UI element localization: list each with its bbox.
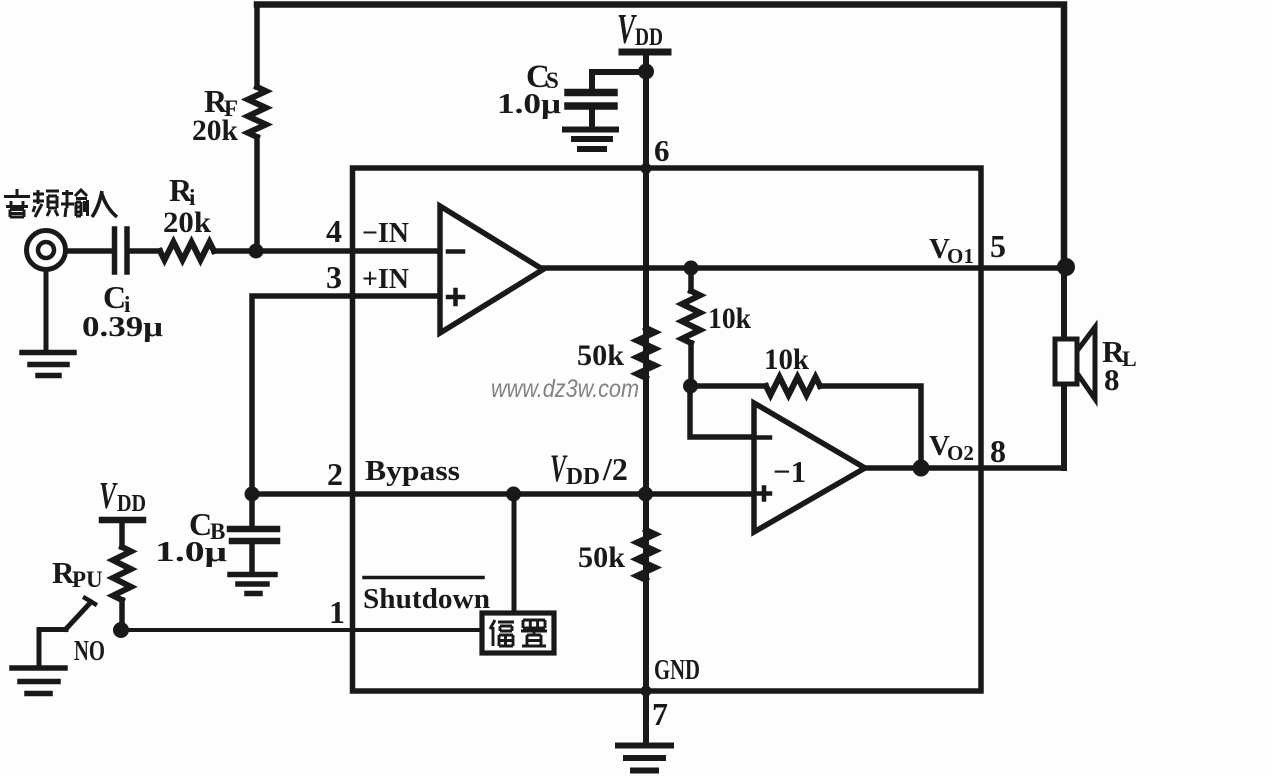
svg-text:50k: 50k [577, 339, 624, 372]
svg-text:6: 6 [654, 133, 670, 168]
svg-text:7: 7 [652, 696, 668, 732]
svg-text:4: 4 [326, 213, 342, 249]
svg-text:PU: PU [72, 567, 103, 592]
svg-text:50k: 50k [578, 541, 625, 574]
svg-text:O2: O2 [947, 441, 974, 465]
svg-text:0.39μ: 0.39μ [82, 312, 163, 343]
svg-text:8: 8 [1104, 362, 1120, 397]
svg-text:10k: 10k [708, 302, 751, 335]
svg-text:20k: 20k [163, 206, 211, 239]
svg-text:5: 5 [990, 228, 1006, 264]
svg-text:1.0μ: 1.0μ [497, 89, 561, 120]
svg-text:DD: DD [117, 491, 146, 517]
svg-text:/2: /2 [602, 451, 628, 487]
svg-text:DD: DD [566, 464, 600, 490]
svg-text:C: C [103, 279, 126, 315]
svg-text:V: V [99, 475, 118, 517]
svg-text:O1: O1 [947, 244, 974, 268]
svg-text:GND: GND [654, 654, 700, 686]
svg-text:8: 8 [990, 433, 1006, 469]
svg-text:10k: 10k [764, 343, 809, 376]
svg-text:NO: NO [74, 636, 105, 667]
svg-text:3: 3 [326, 259, 342, 295]
svg-text:www.dz3w.com: www.dz3w.com [491, 375, 639, 403]
svg-text:1: 1 [329, 594, 345, 630]
svg-text:1.0μ: 1.0μ [155, 537, 227, 568]
svg-text:V: V [617, 7, 637, 53]
svg-text:L: L [1122, 346, 1137, 371]
svg-text:2: 2 [327, 456, 343, 492]
svg-text:−IN: −IN [362, 217, 409, 249]
svg-text:DD: DD [635, 24, 663, 51]
svg-text:+IN: +IN [362, 263, 409, 295]
svg-text:−1: −1 [773, 454, 806, 489]
svg-text:20k: 20k [192, 114, 238, 147]
svg-text:Shutdown: Shutdown [363, 583, 490, 615]
svg-text:Bypass: Bypass [365, 455, 460, 487]
